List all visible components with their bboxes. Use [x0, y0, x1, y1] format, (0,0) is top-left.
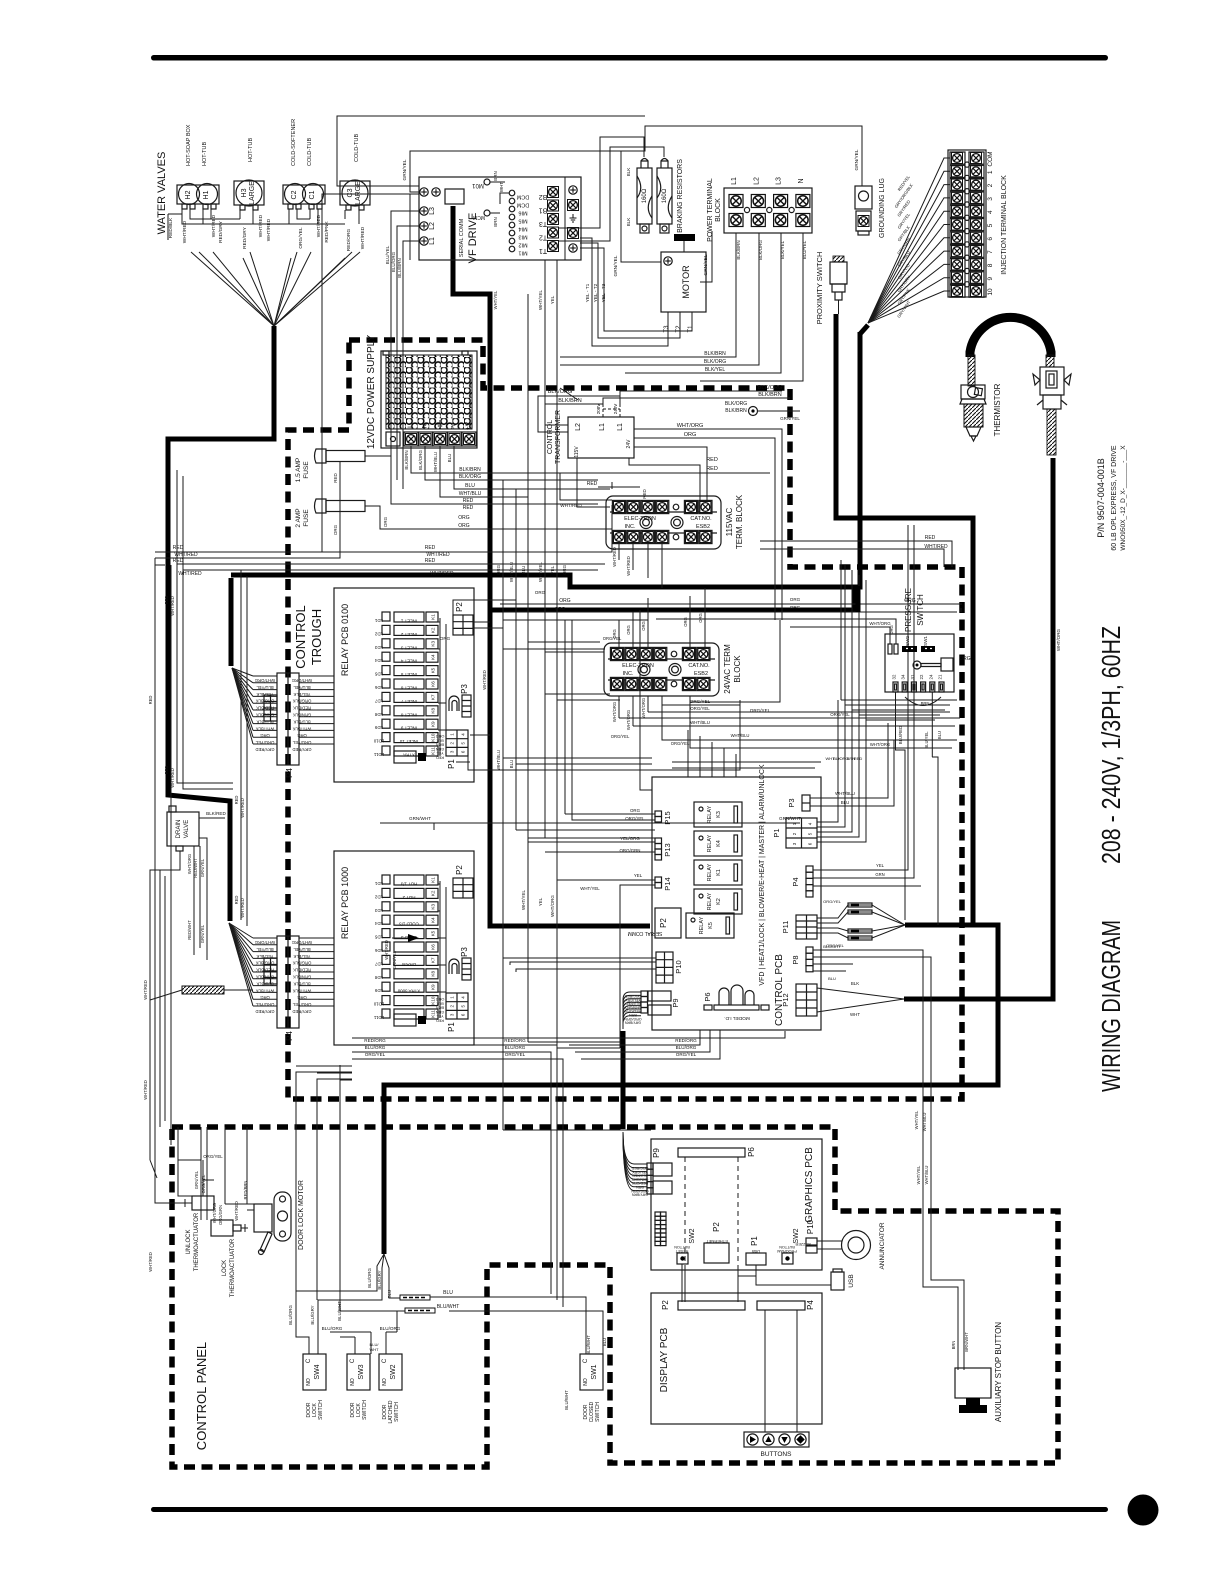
additional wiring texture: [503, 958, 656, 972]
svg-text:THERMOACTUATOR: THERMOACTUATOR: [194, 1212, 200, 1271]
svg-text:ORG: ORG: [626, 625, 631, 635]
svg-text:GRN/YEL: GRN/YEL: [613, 255, 619, 276]
svg-text:ORG/YEL: ORG/YEL: [201, 1174, 206, 1193]
svg-text:HOT-TUB: HOT-TUB: [248, 138, 254, 162]
svg-text:LD8: LD8: [374, 975, 383, 980]
svg-text:240V: 240V: [613, 404, 618, 415]
svg-text:INLET 7: INLET 7: [400, 699, 417, 704]
svg-text:ORG/GRN: ORG/GRN: [624, 1017, 642, 1021]
motor M1: [661, 252, 706, 312]
12VDC power supply: [381, 351, 477, 448]
svg-text:GRY/RED: GRY/RED: [292, 747, 311, 752]
svg-text:MODEL I.D.: MODEL I.D.: [724, 1015, 750, 1021]
svg-text:PRESSURE: PRESSURE: [904, 588, 913, 632]
svg-text:INLET 9: INLET 9: [400, 726, 417, 731]
svg-text:RED/GRY: RED/GRY: [624, 1009, 641, 1013]
svg-text:31: 31: [910, 674, 915, 679]
svg-text:DCM: DCM: [516, 202, 529, 208]
svg-text:K10: K10: [431, 733, 436, 742]
svg-text:ORG/YEL: ORG/YEL: [603, 636, 622, 641]
svg-text:208V: 208V: [596, 404, 601, 415]
svg-text:RED/WHT: RED/WHT: [193, 858, 198, 878]
svg-text:BLU: BLU: [447, 454, 452, 463]
ribbon cable dashed: [685, 1157, 738, 1270]
svg-text:ORG/GRN: ORG/GRN: [631, 1189, 649, 1193]
svg-text:LARGE: LARGE: [249, 181, 256, 205]
svg-text:N: N: [798, 178, 805, 183]
svg-text:GRY/RED: GRY/RED: [255, 747, 274, 752]
svg-text:MOTOR: MOTOR: [681, 265, 691, 299]
svg-text:K6: K6: [431, 944, 436, 950]
svg-text:K3: K3: [431, 904, 436, 910]
svg-text:ORG/YEL: ORG/YEL: [823, 899, 842, 904]
svg-text:BUZZER: BUZZER: [795, 1242, 810, 1246]
svg-text:TERM. BLOCK: TERM. BLOCK: [735, 494, 744, 549]
svg-text:ESB2: ESB2: [696, 524, 710, 530]
fuse wires: [155, 456, 612, 558]
svg-text:C3: C3: [347, 188, 354, 197]
svg-text:RED: RED: [463, 498, 474, 504]
left harness vertical runs: [155, 470, 247, 1203]
svg-text:P2: P2: [455, 865, 464, 875]
svg-text:2: 2: [987, 183, 994, 187]
svg-text:INLET 10: INLET 10: [399, 739, 418, 744]
svg-text:ORG: ORG: [440, 636, 451, 641]
connector P8: [806, 947, 813, 953]
svg-text:HOT-SOAP BOX: HOT-SOAP BOX: [186, 124, 192, 166]
svg-text:WHT/RED: WHT/RED: [143, 980, 148, 1000]
control transformer T1: [568, 417, 634, 458]
svg-text:WHT/RED: WHT/RED: [258, 214, 264, 237]
svg-text:WHT/YEL: WHT/YEL: [538, 562, 543, 582]
svg-text:N: N: [422, 423, 429, 428]
braking resistor R1: [637, 168, 652, 224]
svg-text:K11: K11: [431, 747, 436, 755]
svg-text:WHT/YEL: WHT/YEL: [538, 290, 543, 310]
svg-text:WNO950X_-12_D_X-_______-___X: WNO950X_-12_D_X-_______-___X: [1120, 445, 1127, 551]
svg-text:RELAY: RELAY: [699, 916, 705, 934]
svg-text:USB: USB: [848, 1274, 855, 1287]
svg-text:LARGE: LARGE: [355, 181, 362, 205]
transformer wires: [538, 388, 620, 432]
splice BLU/WHT: [405, 1308, 435, 1313]
splice BLU: [400, 1295, 430, 1300]
svg-text:-V: -V: [451, 422, 458, 429]
motor capacitor bar: [674, 234, 695, 241]
door switch wiring: [296, 1254, 400, 1354]
svg-text:LD2: LD2: [374, 631, 383, 636]
svg-text:ORG/YEL: ORG/YEL: [625, 816, 645, 821]
SW2 program button: [782, 1253, 793, 1264]
svg-text:GRAPHICS PCB: GRAPHICS PCB: [804, 1147, 815, 1223]
svg-text:C: C: [583, 1358, 589, 1363]
svg-text:BLK: BLK: [851, 981, 859, 986]
svg-text:GRN/YEL: GRN/YEL: [392, 950, 397, 969]
svg-text:GRY/BRN: GRY/BRN: [624, 1021, 641, 1025]
relay K2: [694, 889, 742, 914]
svg-text:NO: NO: [350, 1378, 356, 1386]
svg-text:XTRA 3000: XTRA 3000: [397, 989, 420, 994]
svg-text:WHT: WHT: [499, 182, 504, 192]
svg-text:WHT/RED: WHT/RED: [924, 544, 948, 550]
svg-text:SERIAL COMM: SERIAL COMM: [628, 930, 663, 936]
svg-text:L1: L1: [731, 177, 738, 185]
svg-text:K4: K4: [431, 917, 436, 923]
svg-text:115VAC: 115VAC: [725, 507, 734, 536]
switch SW4 door lock: [303, 1354, 326, 1390]
svg-text:LD7: LD7: [374, 698, 383, 703]
auxiliary stop button: [955, 1368, 991, 1398]
svg-text:GRN/YEL: GRN/YEL: [200, 924, 205, 943]
relay K1: [694, 860, 742, 885]
svg-text:LD9: LD9: [374, 988, 383, 993]
svg-text:MI2: MI2: [518, 242, 527, 248]
svg-text:UNLOCK: UNLOCK: [186, 1229, 192, 1254]
svg-text:RED: RED: [425, 545, 436, 551]
power supply terminal strip: [386, 432, 400, 446]
svg-text:RELAY PCB 1000: RELAY PCB 1000: [340, 867, 350, 939]
24VAC block bottom wires: [619, 620, 780, 726]
svg-text:ETHERNET: ETHERNET: [706, 1239, 728, 1244]
svg-text:YEL/GRY: YEL/GRY: [632, 1170, 648, 1174]
svg-text:VALVE: VALVE: [184, 820, 190, 838]
svg-text:L2: L2: [753, 177, 760, 185]
P4 row stub wires: [253, 675, 277, 677]
svg-text:BLU/BRN: BLU/BRN: [397, 258, 402, 278]
svg-text:BLU/GRY: BLU/GRY: [377, 1270, 382, 1289]
svg-text:LD1: LD1: [374, 618, 383, 623]
svg-text:BLK/ORG: BLK/ORG: [548, 389, 572, 395]
svg-text:160Ω: 160Ω: [662, 188, 668, 203]
wire: injection harness bold stem: [860, 325, 868, 334]
connector P10: [656, 952, 683, 983]
svg-text:ORG/RED: ORG/RED: [631, 1166, 648, 1170]
svg-text:COLD-TUB: COLD-TUB: [307, 138, 313, 166]
svg-text:WHT/RED: WHT/RED: [384, 940, 389, 960]
door lock motor: [254, 1204, 272, 1232]
svg-text:ORG/YEL: ORG/YEL: [611, 734, 630, 739]
svg-text:BRAKING RESISTORS: BRAKING RESISTORS: [677, 159, 684, 233]
svg-text:1.5 AMP: 1.5 AMP: [295, 458, 302, 483]
svg-text:MI6: MI6: [518, 210, 527, 216]
svg-text:FUSE: FUSE: [303, 461, 310, 479]
svg-text:BLU/ORG: BLU/ORG: [380, 1326, 401, 1331]
svg-text:YEL: YEL: [876, 863, 885, 868]
svg-text:P6: P6: [747, 1147, 756, 1157]
svg-text:WHT/RED: WHT/RED: [626, 556, 631, 576]
svg-text:BLK/ORG: BLK/ORG: [758, 240, 763, 261]
svg-text:WHT/ORG: WHT/ORG: [626, 710, 631, 730]
connector P13: [655, 838, 662, 844]
svg-text:WHT/ORG: WHT/ORG: [677, 423, 704, 429]
svg-text:HOT-TUB: HOT-TUB: [202, 142, 208, 166]
inter-PCB wire: [380, 823, 800, 830]
svg-text:RED: RED: [854, 756, 863, 761]
svg-text:SW2: SW2: [905, 636, 910, 646]
svg-text:T1: T1: [539, 247, 547, 254]
svg-text:LD3: LD3: [374, 908, 383, 913]
svg-text:L1: L1: [429, 237, 436, 245]
svg-text:SW2: SW2: [689, 1228, 696, 1243]
svg-text:ORG/GRN: ORG/GRN: [620, 848, 641, 853]
svg-text:ORG: ORG: [496, 564, 501, 575]
svg-text:DRAIN: DRAIN: [402, 962, 416, 967]
svg-text:T2: T2: [539, 234, 547, 241]
svg-text:32: 32: [892, 674, 897, 679]
svg-text:INLET 6: INLET 6: [400, 686, 417, 691]
svg-text:YEL: YEL: [550, 295, 555, 304]
svg-text:BLU/YEL: BLU/YEL: [385, 245, 390, 264]
svg-text:BUTTON: BUTTON: [779, 1245, 795, 1249]
svg-text:INLET 3: INLET 3: [400, 645, 417, 650]
connector P9: [641, 991, 680, 1015]
svg-text:L2: L2: [575, 423, 582, 431]
svg-text:ORG/YEL: ORG/YEL: [690, 706, 710, 711]
svg-text:L3: L3: [429, 207, 436, 215]
svg-text:COLD-TUB: COLD-TUB: [354, 134, 360, 162]
svg-text:LD6: LD6: [374, 948, 383, 953]
svg-text:COLD 1/3: COLD 1/3: [399, 922, 419, 927]
svg-text:RELAY: RELAY: [707, 805, 713, 823]
pressure switch: [885, 634, 954, 692]
drain valve wires: [150, 818, 225, 1160]
svg-text:ORG: ORG: [790, 597, 801, 602]
svg-text:K2: K2: [431, 627, 436, 633]
VF drive right terminals: [569, 186, 577, 194]
svg-text:P10: P10: [674, 960, 683, 973]
svg-text:TROUGH: TROUGH: [309, 609, 324, 665]
svg-text:INC.: INC.: [623, 671, 634, 677]
svg-text:ESB2: ESB2: [694, 671, 708, 677]
thermistor cable arc: [970, 317, 1051, 357]
pin strip component: [655, 1212, 666, 1246]
svg-text:WHT/RED: WHT/RED: [482, 670, 487, 690]
display P2 connector: [678, 1301, 745, 1310]
svg-text:BLK/RED: BLK/RED: [206, 811, 226, 816]
svg-text:K4: K4: [716, 840, 722, 847]
P1 wires: [817, 700, 866, 842]
svg-text:WHT/ORG: WHT/ORG: [255, 940, 275, 945]
svg-text:7: 7: [987, 250, 994, 254]
VF drive aux wires down: [528, 260, 557, 511]
wires from 0100 P2 region: [453, 600, 516, 628]
svg-text:6: 6: [987, 237, 994, 241]
svg-text:SW4: SW4: [314, 1364, 321, 1379]
svg-text:WHT/YEL: WHT/YEL: [916, 1165, 921, 1184]
svg-text:RELAY: RELAY: [707, 834, 713, 852]
svg-text:1: 1: [987, 170, 994, 174]
svg-text:K9: K9: [431, 984, 436, 990]
svg-text:P13: P13: [663, 843, 672, 856]
SW2 reset button: [677, 1253, 688, 1264]
svg-text:P3: P3: [460, 947, 469, 957]
svg-text:SW1: SW1: [591, 1364, 598, 1379]
svg-text:RED: RED: [148, 696, 153, 705]
motor wires to VF drive: [580, 238, 692, 346]
continuation arrow: [392, 937, 408, 939]
svg-text:COM: COM: [987, 151, 994, 166]
svg-text:NO: NO: [306, 1378, 312, 1386]
svg-text:WHT/YEL: WHT/YEL: [521, 890, 526, 910]
svg-text:K11: K11: [431, 1010, 436, 1018]
svg-text:ORG: ORG: [458, 515, 470, 521]
svg-text:C: C: [382, 1358, 388, 1363]
injection harness fan: [868, 158, 950, 323]
svg-text:THERMOACTUATOR: THERMOACTUATOR: [230, 1238, 236, 1297]
svg-text:CAT.NO.: CAT.NO.: [690, 516, 712, 522]
svg-text:+V: +V: [465, 421, 472, 430]
wire: water valve harness bundle: [168, 326, 274, 921]
svg-text:LD1: LD1: [374, 881, 383, 886]
svg-text:RED: RED: [706, 457, 718, 463]
svg-text:60 LB OPL EXPRESS, VF DRIVE: 60 LB OPL EXPRESS, VF DRIVE: [1111, 445, 1118, 551]
svg-text:THERMISTOR: THERMISTOR: [993, 383, 1002, 436]
svg-text:K7: K7: [431, 957, 436, 963]
svg-text:BLU/ORG: BLU/ORG: [391, 251, 396, 272]
svg-text:P2: P2: [455, 602, 464, 612]
mid-region distribution wires: [503, 598, 655, 838]
control PCB: [652, 777, 821, 1030]
svg-text:GRN: GRN: [875, 872, 884, 877]
svg-text:RED/ORG: RED/ORG: [364, 1038, 386, 1043]
grounding and top bus wires: [410, 126, 862, 260]
svg-text:RED: RED: [333, 473, 338, 483]
pressure switch wires: [656, 619, 941, 925]
svg-text:WHT/RED: WHT/RED: [266, 218, 272, 241]
svg-text:WHT: WHT: [850, 1012, 860, 1017]
svg-text:C: C: [306, 1358, 312, 1363]
graphics PCB: [651, 1139, 822, 1270]
svg-text:GRN/GRY: GRN/GRY: [624, 1005, 641, 1009]
svg-text:L1: L1: [617, 423, 624, 431]
svg-text:WHT/ORG: WHT/ORG: [869, 621, 891, 626]
power terminal block TB1: [724, 188, 812, 233]
svg-text:P8: P8: [791, 955, 800, 964]
control trough / electronics enclosure dashed boundary: [288, 340, 962, 1099]
top rule: [151, 55, 1108, 61]
vertical feeders to control PCB top: [688, 730, 736, 777]
transformer taps: [603, 405, 620, 417]
svg-text:MI3: MI3: [518, 234, 527, 240]
connector P15: [655, 811, 662, 817]
svg-text:SW2: SW2: [793, 1228, 800, 1243]
svg-text:GRY/RED: GRY/RED: [292, 1009, 311, 1014]
svg-text:LD3: LD3: [374, 645, 383, 650]
svg-text:P6: P6: [703, 992, 712, 1001]
svg-text:RED/GRY: RED/GRY: [631, 1181, 648, 1185]
svg-text:BLU/ORG: BLU/ORG: [367, 1268, 372, 1288]
svg-text:GRN/YEL: GRN/YEL: [703, 254, 709, 275]
svg-text:P2: P2: [661, 1300, 670, 1310]
svg-text:K2: K2: [716, 898, 722, 905]
graphics P6 connector: [678, 1148, 745, 1157]
svg-text:ORG: ORG: [535, 590, 546, 595]
svg-text:RED/BRN: RED/BRN: [243, 1181, 248, 1200]
svg-text:P3: P3: [787, 798, 796, 807]
svg-text:P/N 9507-004-001B: P/N 9507-004-001B: [1096, 458, 1106, 538]
svg-text:RED/ORG: RED/ORG: [504, 1038, 526, 1043]
svg-text:SWITCH: SWITCH: [362, 1400, 368, 1420]
svg-text:ORG: ORG: [959, 656, 971, 662]
svg-text:WHT/ORG: WHT/ORG: [255, 678, 275, 683]
svg-text:ORG/GRN: ORG/GRN: [218, 1205, 223, 1225]
svg-text:MI1: MI1: [518, 250, 527, 256]
thermoactuator wires: [178, 1127, 254, 1220]
svg-text:WHT/BLU: WHT/BLU: [459, 491, 482, 497]
svg-text:BLK/ORG: BLK/ORG: [704, 359, 726, 365]
svg-text:ANNUNCIATOR: ANNUNCIATOR: [879, 1222, 886, 1269]
svg-text:P1: P1: [447, 1022, 456, 1032]
svg-text:WHT/RED: WHT/RED: [182, 220, 188, 243]
svg-text:BLU/ORG: BLU/ORG: [322, 1326, 343, 1331]
svg-text:RELAY: RELAY: [707, 892, 713, 910]
svg-text:P2: P2: [659, 918, 668, 928]
svg-text:WHT/BLU: WHT/BLU: [496, 750, 501, 770]
svg-text:BRN: BRN: [493, 171, 498, 181]
svg-text:ORG/YEL: ORG/YEL: [298, 227, 304, 249]
svg-text:T3: T3: [539, 220, 547, 227]
USB connector external: [831, 1272, 844, 1290]
svg-text:24V: 24V: [626, 439, 632, 449]
svg-text:ORG: ORG: [555, 606, 566, 611]
svg-text:BLK/BRN: BLK/BRN: [758, 392, 782, 398]
svg-text:GRY/RED: GRY/RED: [255, 1009, 274, 1014]
svg-text:RED: RED: [234, 796, 239, 805]
svg-text:B2: B2: [539, 193, 548, 200]
svg-text:GRN/YEL: GRN/YEL: [194, 1170, 199, 1189]
connector P12: [781, 984, 817, 1016]
svg-text:21: 21: [938, 674, 943, 679]
svg-text:K3: K3: [716, 811, 722, 818]
relay PCB 0100 P1 wires: [456, 700, 740, 770]
svg-text:YEL: YEL: [538, 897, 543, 906]
svg-text:WHT/RED: WHT/RED: [430, 571, 454, 577]
svg-text:RED: RED: [164, 596, 169, 605]
svg-text:WHT/BLU: WHT/BLU: [731, 733, 750, 738]
24VAC block top wires: [500, 588, 705, 649]
VF input wires L1 L2 L3: [391, 211, 419, 489]
water valve H3 LARGE: [234, 181, 264, 205]
svg-text:WHT/ORG: WHT/ORG: [550, 895, 555, 917]
svg-text:WHT/RED: WHT/RED: [170, 768, 175, 788]
fuse F2 2 AMP: [315, 499, 327, 513]
svg-text:BLU: BLU: [443, 1290, 453, 1296]
svg-text:BLU/ORG: BLU/ORG: [365, 1045, 386, 1050]
svg-text:LD11: LD11: [373, 1015, 384, 1020]
svg-text:XTRA: XTRA: [403, 753, 415, 758]
svg-text:ORG: ORG: [383, 516, 388, 527]
svg-text:BLK/BRN: BLK/BRN: [404, 450, 409, 469]
svg-text:BUTTONS: BUTTONS: [761, 1451, 793, 1458]
svg-text:9: 9: [987, 277, 994, 281]
wire: harness branch to relay PCB 0100 P4: [229, 578, 234, 666]
svg-text:ORG/YEL: ORG/YEL: [830, 712, 850, 717]
svg-text:K9: K9: [431, 721, 436, 727]
svg-text:P14: P14: [663, 877, 672, 890]
svg-text:LD4: LD4: [374, 921, 383, 926]
connector P4: [806, 866, 813, 872]
svg-text:34: 34: [901, 674, 906, 679]
relay K5: [686, 913, 734, 938]
P9 harness fan: [623, 992, 641, 1029]
svg-text:K5: K5: [708, 922, 714, 929]
svg-text:ORG/YEL: ORG/YEL: [505, 1052, 526, 1057]
control wiring vertical runs: [503, 480, 557, 1130]
water valve C3 LARGE: [340, 181, 370, 205]
svg-text:BRN: BRN: [951, 1341, 956, 1350]
VF drive serial connector: [445, 189, 464, 204]
svg-text:BLK/BRN: BLK/BRN: [558, 398, 582, 404]
